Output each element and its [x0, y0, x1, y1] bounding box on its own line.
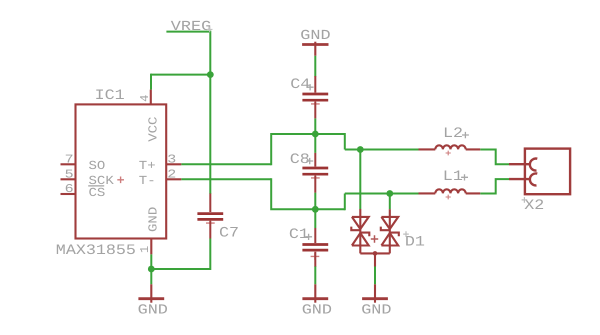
svg-text:CS: CS	[89, 186, 106, 200]
svg-text:C1: C1	[289, 227, 309, 243]
svg-text:VREG: VREG	[171, 20, 211, 35]
svg-text:SO: SO	[89, 159, 106, 173]
svg-text:IC1: IC1	[95, 88, 125, 104]
svg-text:4: 4	[138, 95, 152, 102]
svg-text:C4: C4	[290, 77, 310, 93]
svg-text:L2: L2	[443, 126, 463, 142]
svg-text:1: 1	[138, 246, 152, 253]
svg-text:GND: GND	[147, 207, 161, 232]
svg-text:L1: L1	[443, 169, 463, 185]
svg-text:GND: GND	[361, 304, 391, 319]
svg-text:7: 7	[65, 153, 74, 167]
svg-text:T+: T+	[139, 159, 156, 173]
svg-text:VCC: VCC	[147, 117, 161, 142]
svg-text:GND: GND	[302, 304, 332, 319]
svg-text:GND: GND	[138, 304, 168, 319]
svg-text:C8: C8	[290, 152, 310, 168]
svg-text:6: 6	[65, 182, 74, 196]
svg-text:D1: D1	[405, 234, 425, 250]
svg-text:C7: C7	[219, 226, 239, 242]
svg-text:MAX31855: MAX31855	[56, 243, 136, 259]
svg-text:GND: GND	[300, 29, 330, 44]
svg-text:2: 2	[167, 168, 176, 182]
svg-text:3: 3	[167, 153, 176, 167]
svg-text:5: 5	[65, 167, 74, 181]
svg-text:X2: X2	[524, 198, 544, 214]
svg-text:T-: T-	[139, 174, 156, 188]
